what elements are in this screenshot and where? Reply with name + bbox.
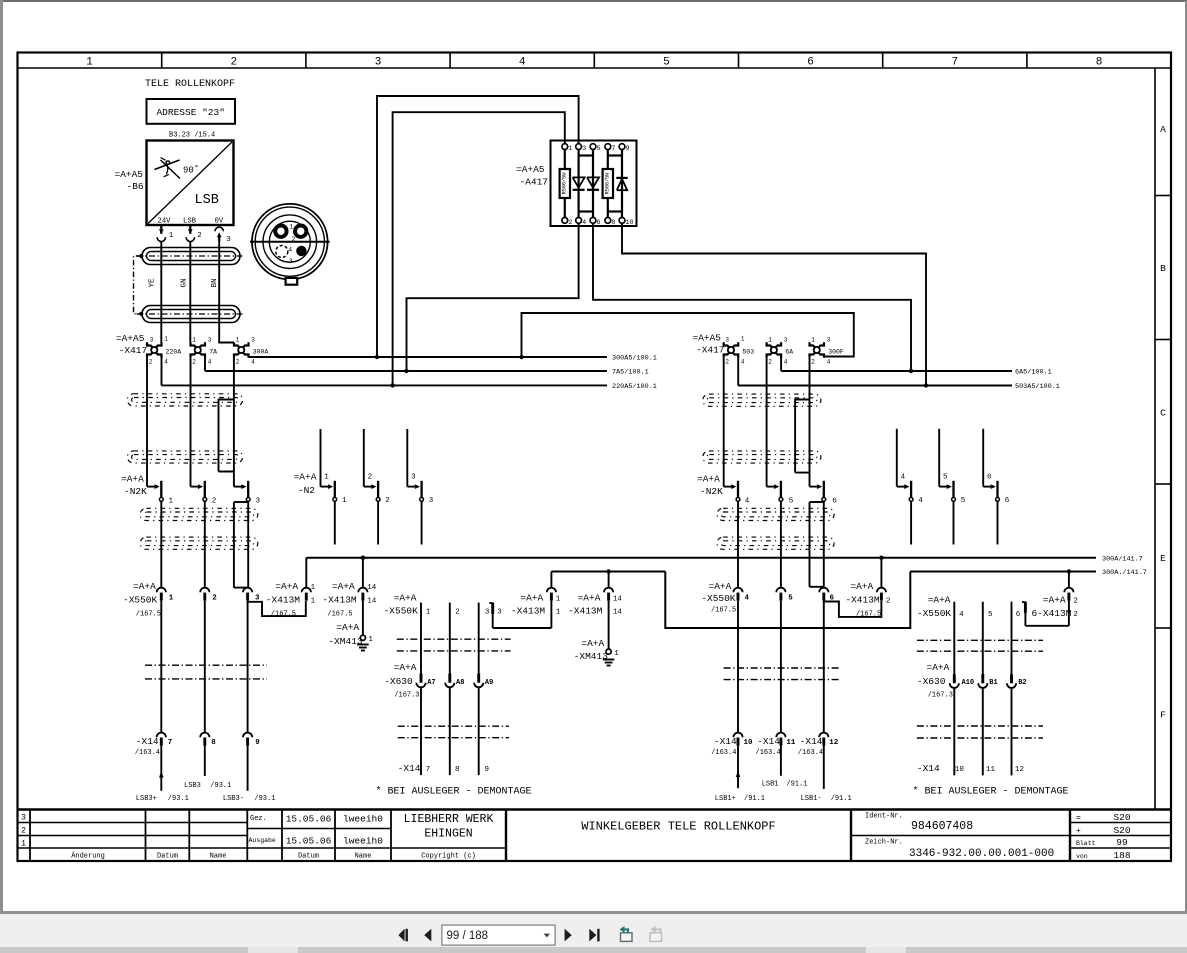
svg-text:=A+A: =A+A: [294, 472, 317, 483]
svg-text:B3.23 /15.4: B3.23 /15.4: [169, 132, 215, 140]
connector N2K pin4: [724, 481, 750, 506]
svg-text:2: 2: [291, 236, 295, 243]
svg-text:LIEBHERR WERK: LIEBHERR WERK: [404, 813, 494, 826]
connector N2 pin1: [321, 429, 348, 505]
connector X417 6A: [767, 337, 794, 366]
wire 503 pin2 down: [723, 358, 725, 487]
cable boundary dash-dot mid lower: [398, 726, 509, 738]
net 220A5/100.1: [162, 354, 657, 391]
taskbar strip: [0, 947, 1187, 953]
cable boundary dash-dot mid upper: [397, 639, 511, 651]
svg-text:LSB1-: LSB1-: [801, 795, 822, 803]
net label LSB1- /91.1: [801, 795, 852, 803]
svg-text:-X14: -X14: [136, 736, 159, 747]
svg-text:-X630: -X630: [384, 676, 413, 687]
svg-text:8: 8: [611, 219, 615, 226]
wire X550K4 to X14-10: [737, 601, 739, 733]
svg-text:Änderung: Änderung: [71, 852, 105, 861]
note BEI AUSLEGER - DEMONTAGE right: [913, 786, 1069, 798]
connector label =A+A -X630 /167.3 mid: [384, 662, 419, 700]
svg-text:Name: Name: [355, 853, 372, 861]
svg-text:=A+A: =A+A: [927, 662, 950, 673]
resistor R500/5W left: [560, 169, 570, 198]
connector X14 pin10: [711, 733, 753, 758]
svg-text:2: 2: [811, 359, 815, 366]
svg-text:220A: 220A: [166, 349, 182, 356]
wire N2-4 stub down: [910, 501, 912, 544]
svg-text:-A417: -A417: [520, 177, 549, 188]
connector label =A+A -X550K mid: [384, 592, 419, 616]
junction X413M14 mid on bus: [606, 569, 610, 573]
junction on 6A5 bus: [909, 369, 913, 373]
svg-text:=A+A5: =A+A5: [115, 169, 144, 180]
toolbar icons: [0, 914, 1187, 953]
svg-text:/91.1: /91.1: [786, 780, 807, 788]
svg-text:4: 4: [784, 359, 788, 366]
svg-text:6: 6: [1016, 611, 1021, 619]
svg-text:4: 4: [918, 497, 923, 505]
svg-text:Datum: Datum: [157, 853, 178, 861]
svg-text:-X630: -X630: [917, 676, 946, 687]
svg-text:14: 14: [367, 597, 377, 605]
svg-text:2: 2: [236, 359, 240, 366]
Zeich-Nr. cell 3346-932.00.00.001-000: [865, 839, 1054, 861]
cable marker right pair2 lower: [717, 537, 834, 549]
svg-text:1: 1: [192, 337, 196, 344]
svg-text:=A+A: =A+A: [275, 581, 298, 592]
Liebherr Werk Ehingen cell: [404, 813, 494, 841]
wire N2K6 to X550K6 paired loop: [810, 502, 824, 587]
svg-text:/163.4: /163.4: [135, 749, 160, 757]
svg-text:Ident-Nr.: Ident-Nr.: [865, 813, 903, 821]
svg-text:-X413M: -X413M: [266, 594, 301, 605]
svg-text:5: 5: [943, 473, 948, 481]
svg-text:LSB3-: LSB3-: [223, 795, 244, 803]
svg-text:10: 10: [955, 766, 965, 774]
svg-text:1: 1: [426, 609, 431, 617]
svg-text:Gez.: Gez.: [250, 815, 267, 823]
svg-text:-X14: -X14: [917, 763, 940, 774]
svg-text:8: 8: [455, 766, 460, 774]
B6 pin 3 0V: [215, 227, 231, 244]
cable marker right pair1 upper: [703, 394, 821, 406]
wire X413M14 to ground XM413: [362, 601, 364, 636]
column header band: [18, 53, 1172, 69]
svg-text:3: 3: [485, 609, 490, 617]
svg-text:8: 8: [1096, 57, 1103, 69]
svg-text:1: 1: [169, 232, 174, 240]
wire X550K6 to X413M2 link: [824, 601, 882, 617]
svg-text:300A/141.7: 300A/141.7: [1102, 555, 1143, 563]
cable boundary dash-dot mid-right column: [724, 668, 840, 680]
connector X417 503: [724, 336, 755, 366]
connector X630 pin A9: [474, 674, 493, 688]
svg-text:/91.1: /91.1: [744, 795, 765, 803]
svg-text:503: 503: [742, 349, 754, 356]
svg-text:-N2: -N2: [298, 485, 315, 496]
svg-text:5: 5: [789, 498, 794, 506]
svg-text:12: 12: [829, 739, 839, 747]
svg-text:ADRESSE "23": ADRESSE "23": [156, 107, 224, 118]
svg-text:/167.3: /167.3: [928, 692, 953, 700]
svg-text:2: 2: [568, 219, 572, 226]
svg-text:12: 12: [1015, 766, 1024, 774]
svg-text:=A+A: =A+A: [121, 474, 144, 485]
svg-text:4: 4: [959, 611, 964, 619]
svg-text:15.05.06: 15.05.06: [286, 814, 332, 825]
svg-text:Name: Name: [210, 853, 227, 861]
A417 internal leads: [565, 150, 622, 218]
cable marker right pair1 lower: [703, 451, 821, 463]
connector X550K pin4: [733, 588, 749, 603]
wire X14-12 end: [823, 746, 825, 789]
svg-text:188: 188: [1113, 850, 1130, 861]
wire colour label GN: [180, 278, 188, 287]
svg-text:1: 1: [342, 497, 347, 505]
svg-text:A7: A7: [427, 679, 435, 687]
svg-text:/163.4: /163.4: [756, 749, 781, 757]
svg-text:=A+A: =A+A: [520, 592, 543, 603]
wire X550K5 to X14-11: [780, 601, 782, 733]
svg-text:6: 6: [807, 57, 814, 69]
svg-text:10: 10: [744, 739, 754, 747]
junction X413M2 on bus 300A: [879, 556, 883, 560]
resistor R500/5W right: [603, 169, 613, 198]
wire A417 pin4 to 7A5 bus: [407, 223, 579, 371]
svg-text:503A5/100.1: 503A5/100.1: [1015, 383, 1060, 391]
wire 300F pin2 down with paired loop: [795, 358, 809, 487]
svg-text:/167.5: /167.5: [136, 611, 161, 619]
wire X550K1 to X14-7: [160, 601, 162, 733]
wire X14-9 end: [247, 746, 249, 791]
link stub to X413M2 right bottom: [1025, 625, 1069, 627]
net label LSB3 /93.1: [184, 782, 231, 790]
svg-text:/167.3: /167.3: [394, 692, 419, 700]
svg-text:984607408: 984607408: [911, 820, 973, 833]
svg-text:WINKELGEBER TELE ROLLENKOPF: WINKELGEBER TELE ROLLENKOPF: [581, 820, 775, 834]
wire A417 pin10 to 503A5 bus: [622, 223, 926, 385]
svg-text:2: 2: [1073, 611, 1078, 619]
B6 pin 1 24V: [157, 225, 174, 242]
svg-text:4: 4: [582, 219, 586, 226]
wire X630 B1 down: [982, 688, 984, 775]
svg-text:/163.4: /163.4: [711, 749, 736, 757]
angle sensor B6 box LSB: [147, 141, 234, 226]
svg-text:6A: 6A: [785, 349, 793, 356]
svg-text:1: 1: [741, 336, 745, 343]
connector label =A+A -N2K left: [121, 474, 147, 498]
wire N2-5 stub down: [953, 501, 955, 544]
wire 7A pin2 down: [190, 358, 192, 487]
svg-text:2: 2: [1073, 598, 1078, 606]
connector X14 pin11: [756, 733, 796, 758]
svg-text:=A+A: =A+A: [697, 474, 720, 485]
page right boundary line: [1185, 1, 1187, 911]
diode V3: [616, 178, 627, 190]
svg-text:3346-932.00.00.001-000: 3346-932.00.00.001-000: [909, 848, 1054, 860]
svg-text:6: 6: [832, 498, 837, 506]
round connector face view: [250, 204, 330, 285]
svg-text:90˚: 90˚: [183, 166, 199, 176]
svg-text:5: 5: [663, 57, 670, 69]
svg-text:=A+A: =A+A: [928, 595, 951, 606]
svg-text:5: 5: [988, 611, 993, 619]
svg-text:300F: 300F: [828, 349, 844, 356]
net label LSB1 /91.1: [762, 780, 808, 788]
svg-text:Copyright (c): Copyright (c): [421, 853, 476, 861]
svg-text:1: 1: [164, 336, 168, 343]
svg-text:B: B: [1160, 263, 1166, 274]
junction on 7A5 bus: [404, 369, 408, 373]
svg-text:4: 4: [164, 359, 168, 366]
svg-text:300A5/100.1: 300A5/100.1: [612, 355, 657, 363]
wire X550K6 rb down: [1012, 602, 1021, 674]
shield junction dot lower: [139, 312, 143, 316]
connector N2K pin5: [767, 481, 794, 506]
svg-text:LSB3+: LSB3+: [136, 795, 157, 803]
svg-text:2: 2: [230, 57, 237, 69]
wire X14-8 end: [204, 746, 206, 776]
A417 device label =A+A5 -A417: [516, 164, 548, 188]
svg-text:10: 10: [626, 219, 634, 226]
wire X630 B2 down: [1011, 688, 1013, 775]
connector N2K pin6: [810, 481, 838, 506]
last page button: [589, 929, 596, 942]
svg-text:11: 11: [986, 766, 996, 774]
address box ADRESSE "23": [147, 99, 236, 124]
svg-text:1: 1: [556, 595, 561, 603]
wire X630 A7 down: [420, 688, 422, 776]
svg-text:2: 2: [197, 232, 202, 240]
svg-text:14: 14: [613, 609, 623, 617]
svg-text:-X417: -X417: [696, 345, 725, 356]
wire colour label YE: [148, 278, 156, 288]
svg-text:A9: A9: [485, 679, 493, 687]
svg-text:S20: S20: [1113, 812, 1130, 823]
svg-text:24V: 24V: [158, 218, 172, 226]
connector X550K pin2: [200, 588, 217, 603]
svg-text:-N2K: -N2K: [124, 486, 147, 497]
connector X417 7A: [191, 337, 218, 366]
svg-text:-X413M: -X413M: [845, 594, 880, 605]
connector X630 pin A7: [416, 674, 435, 688]
connector X417 300A: [234, 337, 268, 366]
svg-text:=A+A: =A+A: [1043, 595, 1066, 606]
wire X550K4 rb down: [954, 602, 964, 674]
svg-text:3: 3: [497, 609, 502, 617]
svg-text:2: 2: [212, 594, 217, 602]
svg-text:7: 7: [168, 739, 173, 747]
connector label -X14 mid pins 7 8 9: [398, 763, 489, 774]
wire X14-7 to LSB3+ with arrow: [159, 746, 164, 791]
svg-text:=A+A5: =A+A5: [116, 333, 145, 344]
diode V1: [573, 177, 585, 189]
svg-text:4: 4: [519, 57, 526, 69]
svg-text:=A+A: =A+A: [578, 592, 601, 603]
svg-text:* BEI AUSLEGER - DEMONTAGE: * BEI AUSLEGER - DEMONTAGE: [376, 786, 532, 798]
svg-text:=A+A: =A+A: [336, 622, 359, 633]
svg-text:2: 2: [886, 597, 891, 605]
svg-text:9: 9: [626, 145, 630, 152]
svg-text:=: =: [1076, 814, 1081, 823]
wire X550K2 to X14-8: [204, 601, 206, 733]
svg-text:LSB: LSB: [195, 193, 219, 208]
svg-text:A10: A10: [962, 679, 975, 687]
svg-text:4: 4: [745, 498, 750, 506]
svg-text:2: 2: [385, 497, 390, 505]
svg-text:=A+A: =A+A: [850, 581, 873, 592]
svg-text:1: 1: [368, 636, 373, 644]
wire 0V down with bend: [219, 242, 234, 343]
junction X413M2 rb on bus: [1067, 569, 1071, 573]
svg-text:=A+A: =A+A: [709, 581, 732, 592]
svg-text:6: 6: [987, 473, 992, 481]
svg-text:1: 1: [236, 337, 240, 344]
connector label =A+A -N2K right: [697, 474, 723, 498]
connector X630 pin B1: [978, 674, 998, 688]
svg-text:von: von: [1076, 853, 1088, 860]
net label LSB3- /93.1: [223, 795, 276, 803]
shielded cable marker upper: [137, 248, 244, 265]
svg-text:B2: B2: [1018, 679, 1026, 687]
svg-text:3: 3: [251, 337, 255, 344]
connector label -X14 right pins 10 11 12: [917, 763, 1024, 774]
wire N2K5 to X550K5: [780, 501, 782, 588]
svg-text:C: C: [1160, 408, 1166, 419]
svg-text:1: 1: [768, 337, 772, 344]
toolbar background: [0, 914, 1187, 947]
next page button: [565, 929, 572, 942]
wire X550K3 mid down: [479, 603, 490, 674]
svg-text:-B6: -B6: [127, 181, 144, 192]
net label LSB1+ /91.1: [715, 795, 765, 803]
svg-text:3: 3: [21, 814, 26, 823]
svg-text:7: 7: [951, 57, 958, 69]
stub pin6 link wire right: [1022, 602, 1025, 626]
wire N2-1 stub down: [334, 501, 336, 544]
svg-text:Zeich-Nr.: Zeich-Nr.: [865, 839, 903, 847]
note BEI AUSLEGER - DEMONTAGE mid: [376, 786, 532, 798]
svg-text:3: 3: [226, 236, 231, 244]
stub pin3 link wire: [489, 603, 502, 628]
connector N2 pin4 right: [897, 429, 924, 505]
svg-text:99: 99: [1116, 837, 1128, 848]
diode V2: [587, 177, 599, 189]
wire LSB down: [189, 242, 191, 343]
connector X413M pin1 first: [266, 558, 316, 619]
wire 6A pin2 down: [766, 358, 768, 487]
svg-text:9: 9: [485, 766, 490, 774]
svg-text:2: 2: [455, 609, 460, 617]
svg-text:-X417: -X417: [119, 345, 148, 356]
connector X630 pin A10: [950, 674, 974, 688]
connector N2K pin3: [234, 481, 261, 506]
svg-text:Datum: Datum: [298, 853, 319, 861]
wire X550K2 mid down: [450, 603, 460, 674]
junction 300A5 at x521: [519, 355, 523, 359]
svg-text:6A5/100.1: 6A5/100.1: [1015, 369, 1052, 377]
svg-text:3: 3: [429, 497, 434, 505]
connector X413M pin14 first: [322, 558, 376, 619]
wire N2K3 to X550K3 paired loop: [234, 502, 248, 588]
svg-text:2: 2: [21, 827, 26, 836]
svg-text:/167.5: /167.5: [327, 611, 352, 619]
wire X14-10 to LSB1+ with arrow: [736, 746, 741, 789]
svg-text:R500/5W: R500/5W: [562, 172, 568, 195]
svg-text:2: 2: [149, 359, 153, 366]
wire X14-11 end: [780, 746, 782, 776]
connector N2 pin2: [364, 429, 390, 505]
svg-text:2: 2: [768, 359, 772, 366]
svg-text:0V: 0V: [215, 218, 224, 226]
junction on 503A5 bus: [924, 383, 928, 387]
svg-text:3: 3: [725, 337, 729, 344]
svg-text:-X550K: -X550K: [917, 608, 952, 619]
heading TELE ROLLENKOPF: [145, 79, 235, 90]
svg-text:4: 4: [741, 359, 745, 366]
wire X550K5 rb down: [983, 602, 993, 674]
connector X550K pin6: [819, 588, 834, 603]
svg-text:/91.1: /91.1: [831, 795, 852, 803]
svg-text:A8: A8: [456, 679, 464, 687]
svg-text:=A+A: =A+A: [394, 662, 417, 673]
svg-text:3: 3: [150, 337, 154, 344]
wire A417 pin6 to 6A5 bus: [593, 223, 911, 371]
cable marker left pair2 lower: [140, 537, 258, 549]
svg-text:B1: B1: [989, 679, 997, 687]
wire X630 A8 down: [449, 688, 451, 776]
window left edge: [0, 0, 3, 946]
bus 300A./141.7: [551, 569, 1146, 628]
junction on 300A5 bus: [375, 355, 379, 359]
cable marker left pair1 lower: [127, 451, 242, 463]
window top edge: [0, 0, 1187, 2]
svg-text:LSB: LSB: [183, 218, 197, 226]
svg-text:5: 5: [597, 145, 601, 152]
connector X550K pin5: [776, 588, 793, 603]
connector X413M pin2 right: [845, 558, 890, 619]
svg-text:1: 1: [614, 650, 619, 658]
svg-text:lweeih0: lweeih0: [343, 836, 383, 847]
svg-text:1: 1: [311, 597, 316, 605]
connector X413M pin14 mid: [568, 572, 622, 617]
svg-text:7: 7: [426, 766, 431, 774]
wire N2-6 stub down: [997, 501, 999, 544]
svg-text:300A: 300A: [253, 349, 269, 356]
svg-text:3: 3: [289, 258, 293, 265]
connector X14 pin9: [243, 733, 260, 747]
title block labels row: [71, 852, 476, 861]
svg-text:E: E: [1160, 553, 1166, 564]
svg-text:1: 1: [169, 498, 174, 506]
svg-text:3: 3: [256, 498, 261, 506]
svg-text:300A./141.7: 300A./141.7: [1102, 569, 1147, 577]
cable marker left pair1 upper: [127, 394, 242, 406]
cable boundary dash-dot rb lower: [917, 726, 1043, 738]
connector N2K pin1: [147, 481, 174, 506]
connector label =A+A -X550K /167.5 right: [701, 581, 736, 615]
svg-text:7: 7: [611, 145, 615, 152]
svg-text:5: 5: [788, 594, 793, 602]
wire 220A pin2 down: [146, 358, 148, 487]
wire N2K1 to X550K1: [160, 501, 162, 588]
connector N2K pin2: [191, 481, 217, 506]
Gez / Ausgabe cells: [249, 814, 384, 847]
svg-text:S20: S20: [1113, 825, 1130, 836]
first page button: [398, 929, 404, 942]
connector X413M pin1 mid: [511, 572, 561, 629]
svg-text:4: 4: [745, 594, 750, 602]
